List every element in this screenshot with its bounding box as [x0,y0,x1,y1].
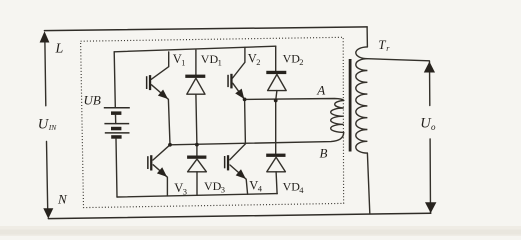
wire inner bottom rail [117,194,277,197]
inverter dashed enclosure box [81,37,344,207]
node A junction dot [243,98,247,102]
svg-text:3: 3 [221,184,225,194]
svg-text:3: 3 [183,186,187,196]
wire node A to primary top [245,99,344,101]
transformer primary winding A-B [331,100,344,132]
arrowhead Uin up [40,31,50,42]
transistor V2 [233,47,245,78]
svg-text:1: 1 [181,58,185,68]
svg-text:o: o [431,122,436,132]
svg-text:VD: VD [201,52,219,66]
wire top outer rail L [44,27,367,31]
wire battery column bottom [116,139,117,197]
svg-text:IN: IN [48,123,57,132]
svg-text:2: 2 [299,57,303,67]
wire battery inter-cell tick [115,115,117,123]
wire battery column top [114,52,115,107]
wire Uo top tap [367,59,429,61]
diode VD3 [196,145,198,156]
transistor V3 [153,145,170,160]
svg-text:N: N [57,192,68,207]
diode VD2 [275,46,277,71]
diode VD4 [275,101,277,154]
transformer T core [349,59,352,152]
svg-text:L: L [55,41,64,56]
wire primary bottom to node B [170,132,344,144]
arrowhead Uo down [425,202,436,213]
node B junction dot V1-V3 [168,143,172,147]
svg-text:B: B [320,146,328,161]
bottom scan band [0,226,521,236]
svg-text:VD: VD [283,179,301,193]
arrowhead Uin down [43,208,53,219]
diode VD1 [195,50,197,75]
svg-text:UB: UB [84,92,101,107]
svg-text:VD: VD [204,179,222,193]
wire secondary bottom to rail [367,153,369,213]
battery UB plates [104,108,130,133]
wire input arrow line Uin [45,42,48,209]
wire output arrow line Uo [430,61,431,213]
transistor V1 [151,52,168,79]
wire top rail drop to secondary [366,27,368,47]
svg-text:1: 1 [218,58,222,68]
node VD2-VD4 junction dot [274,99,278,103]
transistor V4 [230,99,246,159]
svg-text:A: A [316,83,325,98]
arrowhead Uo up [424,62,435,73]
transformer secondary winding [356,47,368,153]
svg-text:T: T [378,37,386,52]
wire inner top rail [114,46,276,52]
svg-text:4: 4 [258,184,263,194]
svg-text:4: 4 [299,185,304,195]
svg-text:2: 2 [256,57,260,67]
wire bottom outer rail N [48,213,431,218]
svg-text:VD: VD [283,51,301,65]
node B junction dot VD1-VD3 [195,143,199,147]
